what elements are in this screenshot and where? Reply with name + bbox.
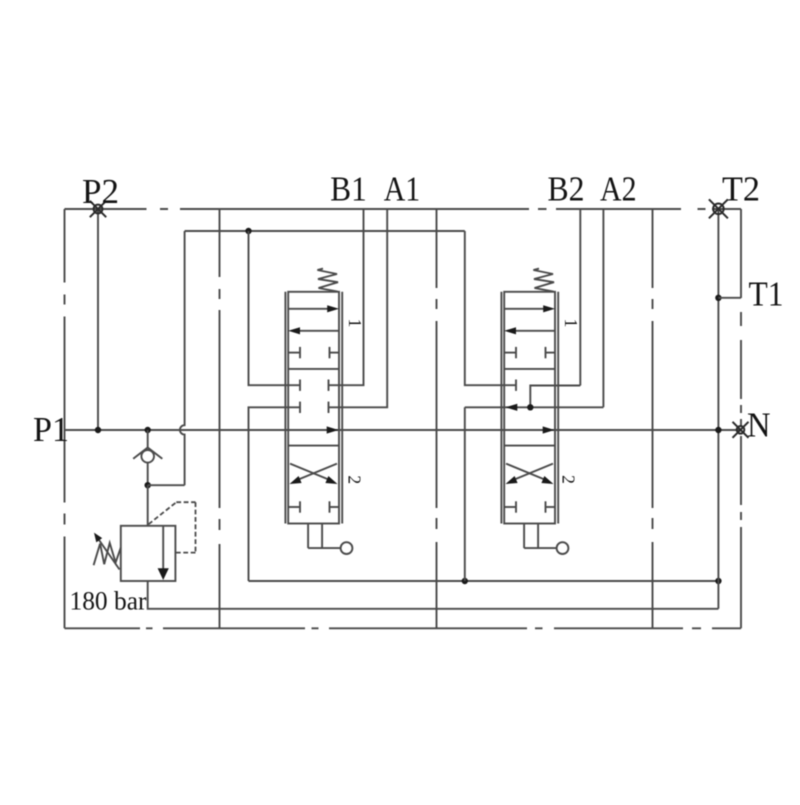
valve envelope xyxy=(288,292,339,524)
valve position divider upper xyxy=(288,368,339,370)
valve position divider lower xyxy=(288,445,339,447)
wire check outlet to riser xyxy=(148,484,185,486)
relief valve RV1 outlet xyxy=(148,581,719,609)
section divider 1 xyxy=(219,209,221,628)
enclosure border bottom xyxy=(65,627,742,629)
svg-text:B1: B1 xyxy=(330,170,367,209)
enclosure border right xyxy=(740,209,742,628)
section divider 3 xyxy=(652,209,654,628)
valve outer rail right xyxy=(341,292,343,524)
relief valve RV1 internal arrow xyxy=(162,527,164,571)
relief valve RV1 adjustment arrow xyxy=(98,539,120,570)
relief valve RV1 inlet xyxy=(147,485,149,526)
svg-text:B2: B2 xyxy=(548,170,585,209)
wire tank gallery xyxy=(249,580,719,582)
wire valve1 feed drop xyxy=(249,231,301,385)
wire valve2 A row through line xyxy=(465,406,604,408)
valve V2 A row arrow left xyxy=(506,404,518,411)
svg-text:1: 1 xyxy=(345,319,365,328)
wire P2 drop line xyxy=(97,209,99,430)
wire T riser xyxy=(717,209,719,609)
svg-text:P2: P2 xyxy=(82,172,119,211)
node P1 check-valve junction xyxy=(145,427,151,433)
svg-text:2: 2 xyxy=(559,475,579,484)
wire T1 stub xyxy=(718,297,741,299)
valve pos2 crossed arrows xyxy=(290,464,330,481)
valve pos1 arrow left xyxy=(297,330,339,332)
wire A2 line xyxy=(602,209,604,407)
valve pos1 arrow right xyxy=(288,308,330,310)
valve lever actuator xyxy=(307,524,309,549)
svg-text:1: 1 xyxy=(561,319,581,328)
enclosure border left xyxy=(64,209,66,628)
wire feed riser with hop over P1 xyxy=(180,231,185,485)
svg-text:T2: T2 xyxy=(722,170,760,209)
valve outer rail left xyxy=(284,292,286,524)
wire valve2 internal branch xyxy=(530,386,580,408)
valve V2 P1 through arrow xyxy=(543,426,555,433)
valve V1 body frame xyxy=(285,269,352,554)
wire valve1 tank drop xyxy=(249,407,301,581)
wire P1 main line xyxy=(65,429,741,431)
valve pos2 blocked stubs xyxy=(288,506,300,508)
wire B2 line xyxy=(579,209,581,386)
valve spring xyxy=(317,269,338,292)
section divider 2 xyxy=(436,209,438,628)
node valve2 internal junction xyxy=(527,404,533,410)
wire valve2 tank drop xyxy=(464,407,466,581)
node P2-P1 junction xyxy=(95,427,101,433)
node feed header junction xyxy=(245,228,251,234)
node T riser P1 junction xyxy=(715,427,721,433)
svg-text:P1: P1 xyxy=(33,410,69,449)
check valve CV1 xyxy=(133,430,162,485)
svg-text:180 bar: 180 bar xyxy=(70,585,147,615)
relief valve RV1 body xyxy=(121,526,176,581)
node T1 junction xyxy=(715,295,721,301)
valve V1 blocked stubs middle rows xyxy=(300,380,329,414)
enclosure border top xyxy=(65,208,742,210)
relief valve RV1 pilot line xyxy=(149,502,196,552)
valve V1 P1 through arrow xyxy=(327,426,339,433)
wire A1 line xyxy=(329,209,388,407)
port N plug symbol xyxy=(733,422,749,438)
svg-text:T1: T1 xyxy=(749,275,784,314)
port P2 plug symbol xyxy=(90,201,106,217)
svg-text:A2: A2 xyxy=(600,170,637,209)
valve V2 body frame xyxy=(501,269,568,554)
valve pos1 blocked stubs xyxy=(288,352,300,354)
svg-text:2: 2 xyxy=(345,475,365,484)
port T2 plug symbol xyxy=(709,199,728,218)
wire feed header xyxy=(185,230,465,232)
node tank gallery to T riser junction xyxy=(715,578,721,584)
relief valve RV1 spring xyxy=(94,543,121,565)
valve V2 blocked stub row385 left xyxy=(515,380,517,391)
node check-valve outlet junction xyxy=(145,482,151,488)
svg-text:N: N xyxy=(747,406,771,445)
svg-text:A1: A1 xyxy=(384,170,421,209)
wire valve2 feed drop xyxy=(465,231,516,385)
node valve2 tank junction xyxy=(462,578,468,584)
wire B1 line xyxy=(329,209,364,385)
